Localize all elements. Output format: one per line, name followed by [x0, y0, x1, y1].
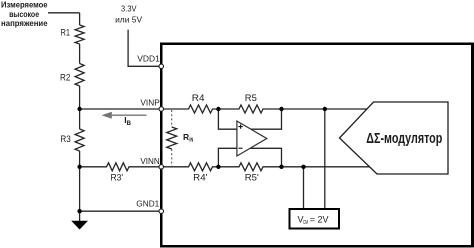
label: measured high voltage text — [1, 1, 48, 29]
wire: internal VINP line with R4 and R5 — [163, 105, 366, 113]
node: R4-R5 junction — [216, 107, 220, 111]
svg-text:VINP: VINP — [140, 98, 160, 108]
resistor Rin (dashed internal input resistance) — [167, 110, 194, 166]
svg-text:или 5V: или 5V — [115, 14, 142, 24]
svg-text:напряжение: напряжение — [1, 19, 48, 28]
svg-text:CM: CM — [303, 220, 308, 226]
node: R5 output junction — [279, 107, 283, 111]
label: 3.3V or 5V supply — [115, 4, 142, 25]
node: ground junction — [77, 209, 81, 213]
IC box — [161, 44, 472, 247]
wire: VINP net from divider to pin — [80, 108, 162, 110]
svg-text:R3: R3 — [60, 134, 70, 144]
svg-text:R2: R2 — [60, 73, 70, 83]
svg-text:= 2V: = 2V — [310, 215, 329, 225]
wire: supply to VDD1 pin — [128, 30, 161, 67]
svg-text:R5: R5 — [245, 93, 257, 103]
wire: R4'/R5' tap to op-amp - input — [218, 148, 237, 167]
svg-text:R5': R5' — [245, 173, 259, 183]
node: R4'-R5' junction — [216, 165, 220, 169]
current arrow IB — [102, 112, 147, 127]
svg-text:R3': R3' — [111, 173, 124, 183]
pin VINP — [159, 107, 164, 112]
wire: rail between R1 and R2 — [79, 44, 81, 64]
pin GND1 — [159, 209, 164, 214]
wire: internal VINN line with R4' and R5' — [163, 163, 370, 171]
svg-text:IN: IN — [189, 137, 193, 143]
svg-text:VDD1: VDD1 — [137, 54, 160, 64]
resistor R1 — [61, 25, 85, 44]
voltage source VCM = 2V box — [290, 209, 340, 229]
svg-text:VINN: VINN — [140, 156, 159, 166]
svg-text:3.3V: 3.3V — [121, 4, 137, 14]
delta-sigma modulator block — [340, 102, 449, 174]
pin VINN — [159, 165, 164, 170]
wire: GND1 net from rail to pin — [80, 210, 162, 212]
op-amp U1 — [237, 121, 267, 156]
wire: rail between R2 and R3 (through VINP tap) — [79, 86, 81, 129]
svg-text:Измеряемое: Измеряемое — [1, 1, 48, 10]
wire: VCM to VINP line — [324, 109, 326, 208]
node: R5' output junction — [279, 165, 283, 169]
resistor R3' — [80, 163, 162, 183]
svg-text:GND1: GND1 — [136, 199, 159, 209]
svg-text:R: R — [183, 132, 189, 142]
wire: rail bottom segment to ground — [79, 151, 81, 221]
node: VCM tap on VINP line — [323, 107, 327, 111]
node: VINP tap junction — [77, 107, 81, 111]
wire: R4/R5 tap to op-amp + input — [218, 109, 237, 129]
wire: op-amp - output feedback to bottom line — [250, 148, 281, 167]
svg-text:ΔΣ-модулятор: ΔΣ-модулятор — [366, 130, 442, 147]
svg-text:R4': R4' — [193, 173, 208, 183]
pin VDD1 — [159, 64, 164, 69]
wire: rail top segment — [79, 13, 81, 25]
wire: VCM to VINN line — [303, 167, 305, 208]
svg-text:высокое: высокое — [9, 10, 39, 19]
resistor R2 — [60, 64, 84, 87]
wire: op-amp + output feedback to top line — [251, 109, 282, 129]
node: VCM tap on VINN line — [301, 165, 305, 169]
svg-text:B: B — [127, 121, 132, 127]
svg-text:R4: R4 — [192, 93, 205, 103]
resistor R3 — [60, 129, 84, 151]
node: VINN tap junction — [77, 165, 81, 169]
wire: input stub from text to divider rail — [48, 12, 80, 14]
ground — [71, 221, 88, 230]
svg-text:R1: R1 — [61, 28, 71, 38]
